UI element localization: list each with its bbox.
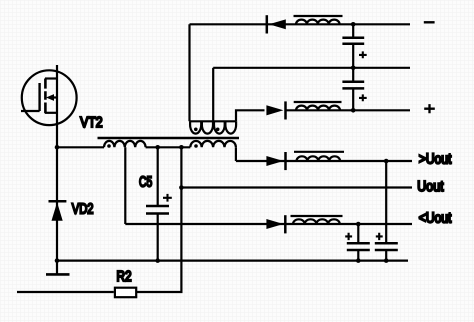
inductor L4 core bar xyxy=(291,215,343,217)
svg-text:<Uout: <Uout xyxy=(419,210,452,226)
inductor L4 xyxy=(293,219,340,224)
label plus of CB xyxy=(376,233,383,240)
resistor R2 xyxy=(115,288,136,298)
label plus of C_top1 xyxy=(359,51,367,58)
wire secondary lead2 up xyxy=(212,68,214,122)
capacitor CA (bottom left) xyxy=(347,224,370,261)
label minus output xyxy=(424,21,435,23)
node Uout left xyxy=(179,185,184,190)
node <Uout capA xyxy=(356,222,361,227)
wire W2 to >Uout rail xyxy=(235,147,237,161)
node CB bottom xyxy=(384,258,389,263)
wire rail minus xyxy=(190,23,411,25)
transformer winding W2 (primary right) xyxy=(190,141,236,147)
capacitor C_top1 xyxy=(342,24,364,68)
inductor L3 xyxy=(297,156,341,161)
svg-text:Uout: Uout xyxy=(417,179,443,195)
diode VD2 xyxy=(49,201,67,220)
diode D4 (<Uout) xyxy=(266,215,285,233)
wire rail mid xyxy=(213,67,410,69)
diode D3 (>Uout) xyxy=(266,152,285,170)
wire after D2 xyxy=(287,109,411,111)
inductor L1 core bar xyxy=(294,15,343,17)
diode D1 (minus rail, cathode left) xyxy=(267,15,286,33)
phase dot W1 xyxy=(107,144,111,148)
phase dot W3b xyxy=(216,128,220,132)
node C5 bottom xyxy=(155,258,160,263)
label plus of CA xyxy=(345,233,352,240)
diode D2 (plus rail) xyxy=(266,101,285,119)
transformer winding W3 (secondary top) xyxy=(190,121,237,133)
node center top xyxy=(179,145,184,150)
label plus of C_top2 xyxy=(359,94,367,101)
wire Uout rail xyxy=(181,186,412,188)
phase dot W3a xyxy=(194,128,198,132)
wire secondary lead3 xyxy=(236,110,265,121)
wire secondary lead1 up xyxy=(188,24,190,121)
label plus of C5 xyxy=(163,194,172,202)
capacitor C5 xyxy=(146,147,169,260)
capacitor CB (bottom right) xyxy=(375,161,398,261)
label plus output xyxy=(424,104,435,113)
wire <Uout rail xyxy=(125,223,412,225)
inductor L2 xyxy=(296,106,340,111)
svg-text:VT2: VT2 xyxy=(80,115,103,131)
node C5 top xyxy=(155,145,160,150)
inductor L2 core bar xyxy=(294,101,342,103)
wire between windings xyxy=(146,146,191,148)
transformer core xyxy=(98,137,240,140)
inductor L1 xyxy=(296,20,340,25)
wire center vertical (R2 feed) xyxy=(137,147,182,292)
svg-text:VD2: VD2 xyxy=(72,202,94,218)
transformer winding W1 (primary left) xyxy=(104,141,146,147)
node cap2 bottom xyxy=(351,108,356,113)
transistor VT2 (MOSFET) xyxy=(21,70,77,125)
wire R2 left xyxy=(17,291,114,293)
svg-text:R2: R2 xyxy=(117,269,132,285)
node bottom junction xyxy=(55,258,60,263)
node cap1 top xyxy=(351,22,356,27)
wire source to winding1 xyxy=(57,146,104,148)
wire winding1 tap down xyxy=(124,147,126,224)
node source junction xyxy=(55,145,60,150)
node >Uout cap feed xyxy=(384,159,389,164)
ground xyxy=(46,273,70,276)
inductor L3 core bar xyxy=(294,151,344,153)
phase dot W2 xyxy=(194,144,198,148)
svg-text:>Uout: >Uout xyxy=(419,152,452,168)
capacitor C_top2 xyxy=(342,68,364,111)
wire >Uout rail xyxy=(236,160,412,162)
node CA bottom xyxy=(356,258,361,263)
wire drain/source vertical xyxy=(56,65,58,274)
svg-text:C5: C5 xyxy=(139,175,152,191)
node cap1 bottom / cap2 top xyxy=(351,66,356,71)
wire bottom common xyxy=(57,260,408,262)
